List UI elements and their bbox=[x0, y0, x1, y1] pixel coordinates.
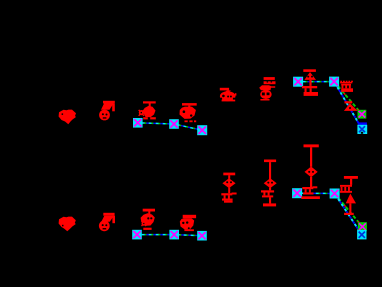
node C8: cyan square with magenta X, bottom right bbox=[330, 189, 340, 199]
wire: bottom-right descending red dashes on green line bbox=[335, 194, 363, 227]
wire: bottom dashed polyline segment 1 (red) bbox=[137, 235, 202, 236]
red cluster B4: top bar + blob with holes + bottom bar, bottom panel bbox=[180, 215, 196, 231]
wire: top-right horizontal dashed line C4-C5 (blue) bbox=[298, 81, 334, 83]
wire: top dashed polyline segment 1 (blue under-dashes) bbox=[137, 123, 202, 130]
red cluster T4: error cap + big blob with holes + dotted bottom bbox=[180, 103, 197, 122]
red cluster T9: small bar + filled triangle on descending line bbox=[344, 101, 358, 111]
node C5: cyan square with magenta X, top right bbox=[329, 77, 339, 87]
node D2: cyan square with magenta X, bottom panel bbox=[169, 230, 179, 240]
wire: bottom dashed polyline segment 1 (green) bbox=[137, 235, 202, 236]
red cluster B1: merged diamond blob, bottom panel bbox=[59, 217, 76, 232]
wire: top-right descending green dashed line C5-G1 bbox=[334, 82, 362, 115]
wire: bottom-right descending green dashed line C8-G2 bbox=[335, 194, 363, 227]
red cluster T5: bar + diagonal + dotted ellipse bbox=[220, 88, 237, 102]
red cluster T3: error cap + diamond blob + left star + bottom bar bbox=[139, 101, 156, 119]
red cluster T8: battlement row + roman III block bbox=[340, 81, 353, 92]
node G1: green square with magenta X, top right bbox=[358, 110, 367, 119]
wire: top-right horizontal dashed line C4-C5 (cyan) bbox=[298, 81, 334, 83]
wire: top dashed polyline segment 1 (cyan main dashes) bbox=[137, 123, 202, 130]
node D3: cyan square with magenta X, bottom panel bbox=[197, 231, 207, 241]
wire: bottom-right horizontal dashed line C7-C8 (cyan) bbox=[297, 192, 335, 194]
node G2: green square with magenta X, bottom right bbox=[358, 222, 367, 231]
node C1: cyan square with magenta X, top panel bbox=[133, 118, 143, 128]
wire: bottom-right horizontal dashed line C7-C8 (green) bbox=[297, 192, 335, 194]
wire: bottom dashed polyline segment 1 (blue) bbox=[137, 235, 202, 236]
red cluster B2: bar + squiggle + circle face, bottom panel bbox=[99, 213, 115, 231]
node C7: cyan square with magenta X, bottom right bbox=[292, 188, 302, 198]
node C6: blue square overlapped by cyan square with blue X, top right end bbox=[357, 122, 367, 134]
wire: bottom-right descending cyan dashed line C8-C9 bbox=[335, 194, 362, 235]
node C3: cyan square with magenta X, top panel bbox=[197, 125, 207, 135]
red cluster T6: stacked bars + blob + crossed circle + feet bbox=[259, 77, 275, 100]
red cluster B5: cap + diamond with eyes + roman II + bottom bar bbox=[221, 173, 236, 203]
wire: top dashed polyline segment 1 (green under-dashes) bbox=[137, 123, 202, 130]
red cluster B8: cap + roman III + big triangle + long error bar bbox=[340, 176, 358, 215]
wire: top-right descending red dashes on green line bbox=[334, 82, 362, 115]
wire: bottom dashed polyline segment 1 (cyan) bbox=[137, 235, 202, 236]
red cluster B7: tall error bar + diamond with eyes + roman II + bottom cap bbox=[301, 144, 320, 199]
node C2: cyan square with magenta X, top panel bbox=[169, 119, 179, 129]
wire: bottom-right horizontal dashed line C7-C8 (blue) bbox=[297, 192, 335, 194]
red cluster B6: tall error bar + diamond with eyes + roman II + bottom cap bbox=[261, 160, 277, 207]
wire: top-right descending cyan dashed line C5-C6 bbox=[334, 82, 362, 130]
wire: top-right horizontal dashed line C4-C5 (green) bbox=[298, 81, 334, 83]
red cluster B3: error cap + diamond blob + left star + bottom bar, bottom panel bbox=[141, 209, 155, 230]
node D1: cyan square with magenta X, bottom panel bbox=[132, 230, 142, 240]
red cluster T1: merged diamond blob bbox=[59, 110, 76, 125]
node C4: cyan square with magenta X, top right bbox=[293, 77, 303, 87]
red cluster T7: cap + triangle with eyes + roman II bbox=[302, 69, 318, 96]
node C9: cyan square with blue X, bottom right end bbox=[357, 230, 366, 239]
wire: bottom-right descending blue dashed line C8-C9 bbox=[335, 194, 362, 235]
red cluster T2: bar + squiggle + circle face bbox=[99, 101, 115, 121]
wire: top-right descending blue dashed line C5-C6 bbox=[334, 82, 362, 130]
